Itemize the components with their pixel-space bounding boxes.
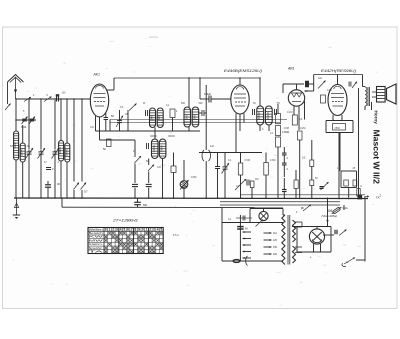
label E446B [224,69,262,73]
wire IF2 bottom1 [259,125,261,131]
wire R10 dn [251,188,253,198]
wire coil C bottom [154,128,156,132]
svg-text:3: 3 [116,228,118,232]
label VG V105a [322,214,337,218]
wire E442H top stub [337,75,339,86]
svg-text:0,5M: 0,5M [191,176,196,179]
T1 core [288,215,290,265]
svg-text:MW: MW [89,239,105,242]
rectifier tube [295,222,325,253]
switch S5 [128,104,137,132]
osc coil L8 [192,107,199,127]
wire L2 top [22,125,24,143]
label AB1 [287,67,295,71]
power switch S10 [342,258,365,267]
switch S6 [135,140,142,183]
svg-text:2500: 2500 [335,127,341,130]
wire AK1 anode to top bus 1 [107,89,115,91]
selector vert [239,215,241,261]
tube AB1 [288,90,304,106]
mains wire y=222.5 [222,222,283,224]
svg-text:500: 500 [192,114,196,119]
resistor R13 [310,160,314,167]
label 100pF [204,93,212,96]
svg-text:4,5MΩ: 4,5MΩ [282,131,289,134]
wire E442H pin L [332,115,334,121]
svg-text:500: 500 [150,115,154,120]
wire R13 link [311,140,313,160]
model text Mascot W II/2 [372,130,382,185]
switch S7 [148,159,154,184]
capacitor C24 [282,178,287,198]
wire AB1 pin down1 [293,106,295,115]
wire AK1 pin a [95,116,97,131]
rectifier box [292,227,331,253]
switch S8 [321,182,329,190]
svg-text:5: 5 [160,228,162,232]
wire drop x=74 [73,99,75,182]
capacitor C18 [147,143,149,149]
resistor R3 [292,115,297,125]
wire C4 bottom [28,159,30,198]
svg-text:0,2A: 0,2A [343,207,348,210]
label 2 right edge [380,194,382,198]
capacitor C29 [282,155,287,177]
wire C6 bottom [54,159,56,198]
earth lead [5,82,11,110]
svg-text:30000: 30000 [168,135,175,138]
potentiometer P1 volume [180,180,189,190]
wire E446B pin2 [239,114,241,131]
wire IF1 top [154,131,156,139]
svg-text:1: 1 [109,228,111,232]
svg-text:Horny: Horny [374,111,379,125]
svg-text:500: 500 [199,102,204,105]
switch S3 [74,183,80,198]
tube E446B [231,85,249,114]
lamp line [250,208,283,210]
svg-text:1nF: 1nF [90,126,95,129]
osc coil L7 [184,107,191,127]
wire AK1 anode to top bus 2 [113,78,115,90]
electrolytic C27 40uF [237,227,244,229]
resistor R10 [250,181,254,188]
switch S1 [23,97,32,102]
wire coil D bottom [188,127,190,131]
ground bus y=197.5 [14,197,368,200]
resistor R5 [276,126,281,136]
capacitor C31 + switch [349,82,357,89]
wire E446B pin3 [243,114,245,123]
tube E442H [328,85,347,116]
bus y=207.2 [62,206,283,208]
wire antenna bus y=99 [16,98,92,100]
resistor R11 [264,163,269,176]
wire P1 dn [183,189,185,198]
label AK1 [93,73,101,77]
junction dot [327,220,329,222]
svg-text:Wellen: Wellen [89,229,104,232]
T1 primary top [282,209,284,216]
label 0,3M [302,157,306,160]
osc coil L6 [157,108,163,128]
trimmer C3 [29,117,35,125]
mains wire y=261 [222,260,283,262]
svg-text:0: 0 [142,228,144,232]
wire drop x=29 [28,99,30,150]
svg-text:27+128kHz: 27+128kHz [112,219,139,223]
capacitor C16 + switch on AB1 line [283,81,326,89]
pilot lamp [250,209,268,223]
wire R14 dn [311,186,313,198]
wire grid v [313,84,315,91]
svg-text:7: 7 [131,228,133,232]
svg-text:2: 2 [149,228,151,232]
resistor R1 [107,139,112,147]
trimmer C5 [38,148,46,159]
wire coil D feed [188,78,190,107]
svg-text:3-30: 3-30 [21,125,27,129]
switch S2 [43,97,53,102]
trimmer C2 [22,117,28,125]
wire AK1 pin b [99,117,101,141]
antenna [8,75,24,100]
cathode network box [326,121,353,133]
svg-text:30000: 30000 [64,148,68,156]
wire P1 up [183,160,185,181]
wire to OT top [363,86,366,88]
label 2500 [0,0,1,1]
tuning coil L4 [64,143,70,162]
label 3-30 [21,125,27,129]
wire C5 bottom [40,159,42,198]
svg-text:2: 2 [112,228,114,232]
wire L3 bottom [60,161,62,198]
svg-text:125: 125 [273,239,278,242]
power right rail [364,198,366,262]
resistor R2 [170,109,175,118]
wire R12 dn [299,140,301,198]
svg-text:100pF: 100pF [204,93,212,96]
wave-band table [88,228,163,254]
label 17m [173,233,179,237]
tuning coil L3 [58,141,64,162]
capacitor C14 [253,109,255,115]
tuning coil L2 [20,143,26,162]
wire AB1 to grid [305,90,314,92]
svg-text:1nF: 1nF [157,166,162,169]
wire top bus right y=74.5 [314,74,363,76]
wire R8 dn [173,173,175,198]
svg-text:AB1: AB1 [287,67,295,71]
IF coil L10 [159,139,166,159]
wire fuse feed [343,205,345,210]
trimmer C10 [116,110,123,131]
svg-text:4,5M: 4,5M [284,127,289,130]
capacitor C19 1nF [132,184,138,197]
label 0,2A [343,207,348,210]
capacitor C26 [236,216,252,221]
wire x327.5 [327,198,329,227]
bus y=205 [220,204,340,206]
wire IF1 bot [162,159,164,198]
svg-text:1M: 1M [255,178,258,181]
electrolytic C21 [202,85,210,198]
resistor R8 [171,166,176,173]
label 0,1M [299,118,303,121]
wire y=140 [100,139,136,141]
capacitor C28 [282,147,287,155]
svg-text:100: 100 [62,92,67,95]
wire R18 dn [295,189,297,199]
svg-text:30000: 30000 [20,148,24,156]
wire y=131 [96,130,201,132]
capacitor C20 [146,184,152,197]
IF coil L11 [257,106,264,125]
svg-text:Mascot W II/2: Mascot W II/2 [372,130,382,185]
label 9,7 [84,190,88,194]
svg-text:(VG/V.105a): (VG/V.105a) [322,214,337,218]
label 505 [327,209,333,213]
label 500pF [143,204,148,207]
tiny value labels [10,77,362,264]
svg-text:30000: 30000 [160,145,164,153]
mains vert x222 [221,207,223,261]
thin rail y=194.8 [240,194,365,196]
trimmer C6 [52,148,60,159]
wire drop x=67 [66,99,68,143]
svg-text:3: 3 [153,228,155,232]
wire R18 up [295,170,297,180]
label 1M [176,110,178,113]
svg-text:E442H(RES96U): E442H(RES96U) [321,69,356,73]
capacitor C13 100pF [200,96,231,103]
resistor R6 [276,137,281,147]
svg-text:4uF: 4uF [318,77,323,80]
bias cell box [341,171,357,188]
bus y=201.8 [220,201,340,203]
ground symbol [13,198,20,220]
label 40 [57,182,60,186]
svg-text:30000: 30000 [266,111,270,119]
svg-text:0: 0 [105,228,107,232]
wire HT rail [358,88,360,198]
wire drop x=55 [54,100,56,150]
wire bias drop [109,120,111,132]
wire E442H pin R [341,115,343,121]
bus jog x62 [61,198,63,207]
tuning coil L1 [13,131,19,160]
svg-text:30000: 30000 [150,135,157,138]
resistor R18 [294,180,298,189]
capacitor C22 [215,153,220,198]
svg-text:17 m: 17 m [173,233,179,237]
switch S4 [81,183,87,198]
voltage selector taps [243,231,278,259]
label 0,2MOhm a [287,157,289,160]
wire AB1 top pin [296,84,298,90]
resistor R9 [238,163,243,175]
resistor R16 [353,180,357,186]
resistor R12 [298,131,303,140]
svg-text:KW: KW [89,236,105,239]
capacitor C32 + switch S12 [323,230,347,236]
resistor R7 [333,124,346,131]
wire det bus y=152.5 [199,152,262,154]
wire drop x=16 [15,99,17,131]
power transformer T1 primary [282,215,285,265]
svg-text:30000: 30000 [257,111,261,119]
wire cathode down [338,133,340,199]
resistor R19 [321,95,326,103]
wire E446B top pin [239,78,241,85]
wire R2 bottom [172,118,174,132]
svg-text:0,1M: 0,1M [287,111,292,114]
output transformer T2 [365,87,370,106]
svg-text:500: 500 [157,115,161,120]
wire R11 up [265,153,267,163]
wire R11 dn [265,175,267,198]
wire drop x=41 [40,99,42,150]
svg-text:9: 9 [138,228,140,232]
wire E446B pin1 [235,114,237,153]
capacitor C1 on antenna bus [56,94,59,101]
IF coil L9 [152,139,159,159]
svg-text:6: 6 [127,228,129,232]
trimmer C4 [26,148,34,159]
wire AB1 right pin [304,101,306,120]
capacitor C15 [275,109,277,115]
svg-text:4uF: 4uF [210,145,215,148]
wire top bus y=78 [114,77,260,79]
label 80-50 [103,148,106,151]
svg-text:0,1: 0,1 [299,118,303,121]
wire drop x=61 [60,99,62,141]
T1 secondary [293,220,296,263]
fuse F2 [233,256,248,266]
label TA [376,196,380,200]
mains terminal [358,195,370,200]
svg-text:0,05: 0,05 [327,89,332,92]
wire R8 up [173,153,175,167]
brand text Horny [374,111,379,125]
brand Horny [0,0,1,1]
resistor R15 [344,180,349,186]
svg-text:5: 5 [123,228,125,232]
wire R9 dn [240,175,242,198]
wire C13 feed [199,78,201,99]
svg-text:1: 1 [146,228,148,232]
scan noise [13,37,378,306]
svg-text:TA: TA [89,251,105,254]
svg-text:4: 4 [157,228,159,232]
wire mid vert x340 [339,133,341,171]
label 0,2MOhm b [287,168,289,171]
wire E442H grid drop [313,75,315,85]
wire speaker rail [371,102,373,110]
trimmer C23 [222,153,230,198]
speaker [372,84,396,104]
svg-text:Bereich: Bereich [89,232,104,235]
wire bias line 2 [110,122,280,124]
svg-text:9,7: 9,7 [84,190,88,194]
wire IF2 bottom2 [268,125,270,131]
resistor R14 [310,180,314,186]
wire R9 up [240,153,242,164]
capacitor C25 500pF below bus [134,198,141,208]
svg-text:110: 110 [273,232,277,235]
wire IF2 feed [259,78,261,106]
IF coil L12 [265,106,272,125]
svg-text:500: 500 [143,204,148,207]
wire R col top [277,104,279,114]
svg-text:500: 500 [181,102,186,105]
svg-text:0,2M: 0,2M [300,127,305,130]
wire bias line 1 [110,119,287,121]
svg-text:0,3M: 0,3M [270,159,275,162]
svg-text:500: 500 [10,145,15,148]
capacitor C7 [46,167,54,171]
capacitor C12 [199,110,206,116]
svg-text:500: 500 [184,114,188,119]
svg-text:0,5M: 0,5M [245,159,250,162]
capacitor C9 AK1 grid [104,113,109,131]
svg-text:Sperrkr.: Sperrkr. [89,247,103,250]
capacitor C30 dark [320,187,324,189]
label 40uF [245,228,248,231]
svg-text:30000: 30000 [58,147,62,155]
capacitor C11 [146,110,148,116]
osc coil L5 [150,108,156,128]
label 4,5M [282,131,289,134]
capacitor C17 [307,81,309,88]
svg-text:E446B(EMS126U): E446B(EMS126U) [224,69,262,73]
wire R col mid [277,147,279,198]
svg-text:8: 8 [135,228,137,232]
wire box dn [348,188,350,198]
wire E442H top drop [362,75,364,87]
wire drop x=82 [81,99,83,182]
svg-text:4: 4 [120,228,122,232]
svg-text:m: m [360,185,362,188]
switch S11 [301,205,311,212]
resistor R4 [276,114,281,124]
wire L4 bottom [66,162,68,198]
label 50 [111,114,114,118]
label 27+128kHz [112,219,139,223]
svg-text:Gramm.: Gramm. [89,243,103,246]
wire AB1 left pin [282,84,284,93]
wire OT bottom [364,106,366,110]
svg-text:30000: 30000 [152,145,156,153]
wire y=120 trimmer feed [16,119,36,121]
capacitor C8 [45,181,51,198]
wire R13 R14 [311,167,313,181]
wire L2 bottom [22,162,24,198]
wire AB1 pin down2 [298,106,300,130]
tube AK1 [90,84,108,117]
mains switch S9 [256,220,264,227]
svg-text:220: 220 [273,253,278,256]
label E442H [321,69,356,73]
svg-text:AK1: AK1 [93,73,101,77]
wire L1 bottom [15,160,17,198]
svg-text:150: 150 [273,246,278,249]
resistor R17 [357,189,360,197]
fuse F1 0,2A [331,206,343,216]
volume pot arrow [235,179,249,190]
